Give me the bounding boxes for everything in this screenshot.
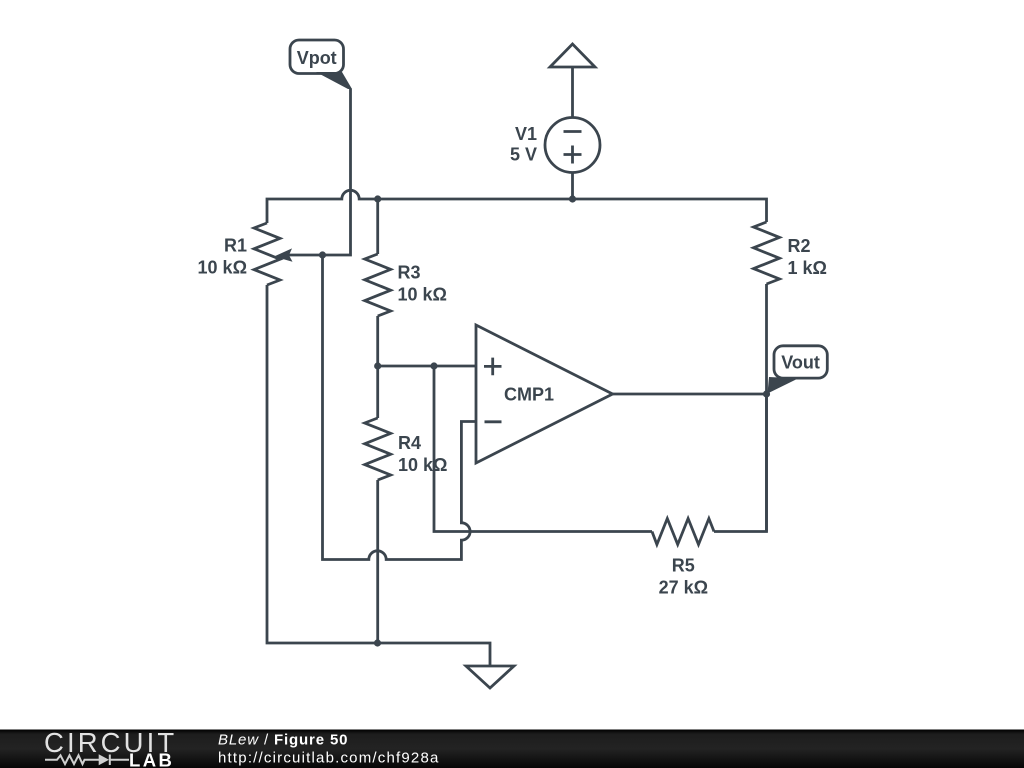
svg-text:BLew / Figure 50: BLew / Figure 50 (218, 732, 348, 749)
svg-text:1 kΩ: 1 kΩ (788, 258, 827, 278)
svg-text:V1: V1 (515, 124, 537, 144)
svg-text:http://circuitlab.com/chf928a: http://circuitlab.com/chf928a (218, 750, 440, 767)
svg-text:27 kΩ: 27 kΩ (659, 578, 708, 598)
svg-text:CMP1: CMP1 (504, 385, 554, 405)
svg-text:Vpot: Vpot (297, 48, 337, 68)
svg-text:10 kΩ: 10 kΩ (398, 285, 447, 305)
svg-text:R2: R2 (788, 236, 811, 256)
svg-text:Vout: Vout (781, 353, 820, 373)
svg-text:LAB: LAB (129, 750, 174, 768)
svg-text:5 V: 5 V (510, 145, 537, 165)
svg-text:10 kΩ: 10 kΩ (398, 455, 447, 475)
svg-text:10 kΩ: 10 kΩ (198, 258, 247, 278)
svg-text:R5: R5 (672, 556, 695, 576)
svg-text:R1: R1 (224, 236, 247, 256)
svg-text:R4: R4 (398, 433, 421, 453)
svg-text:R3: R3 (398, 263, 421, 283)
